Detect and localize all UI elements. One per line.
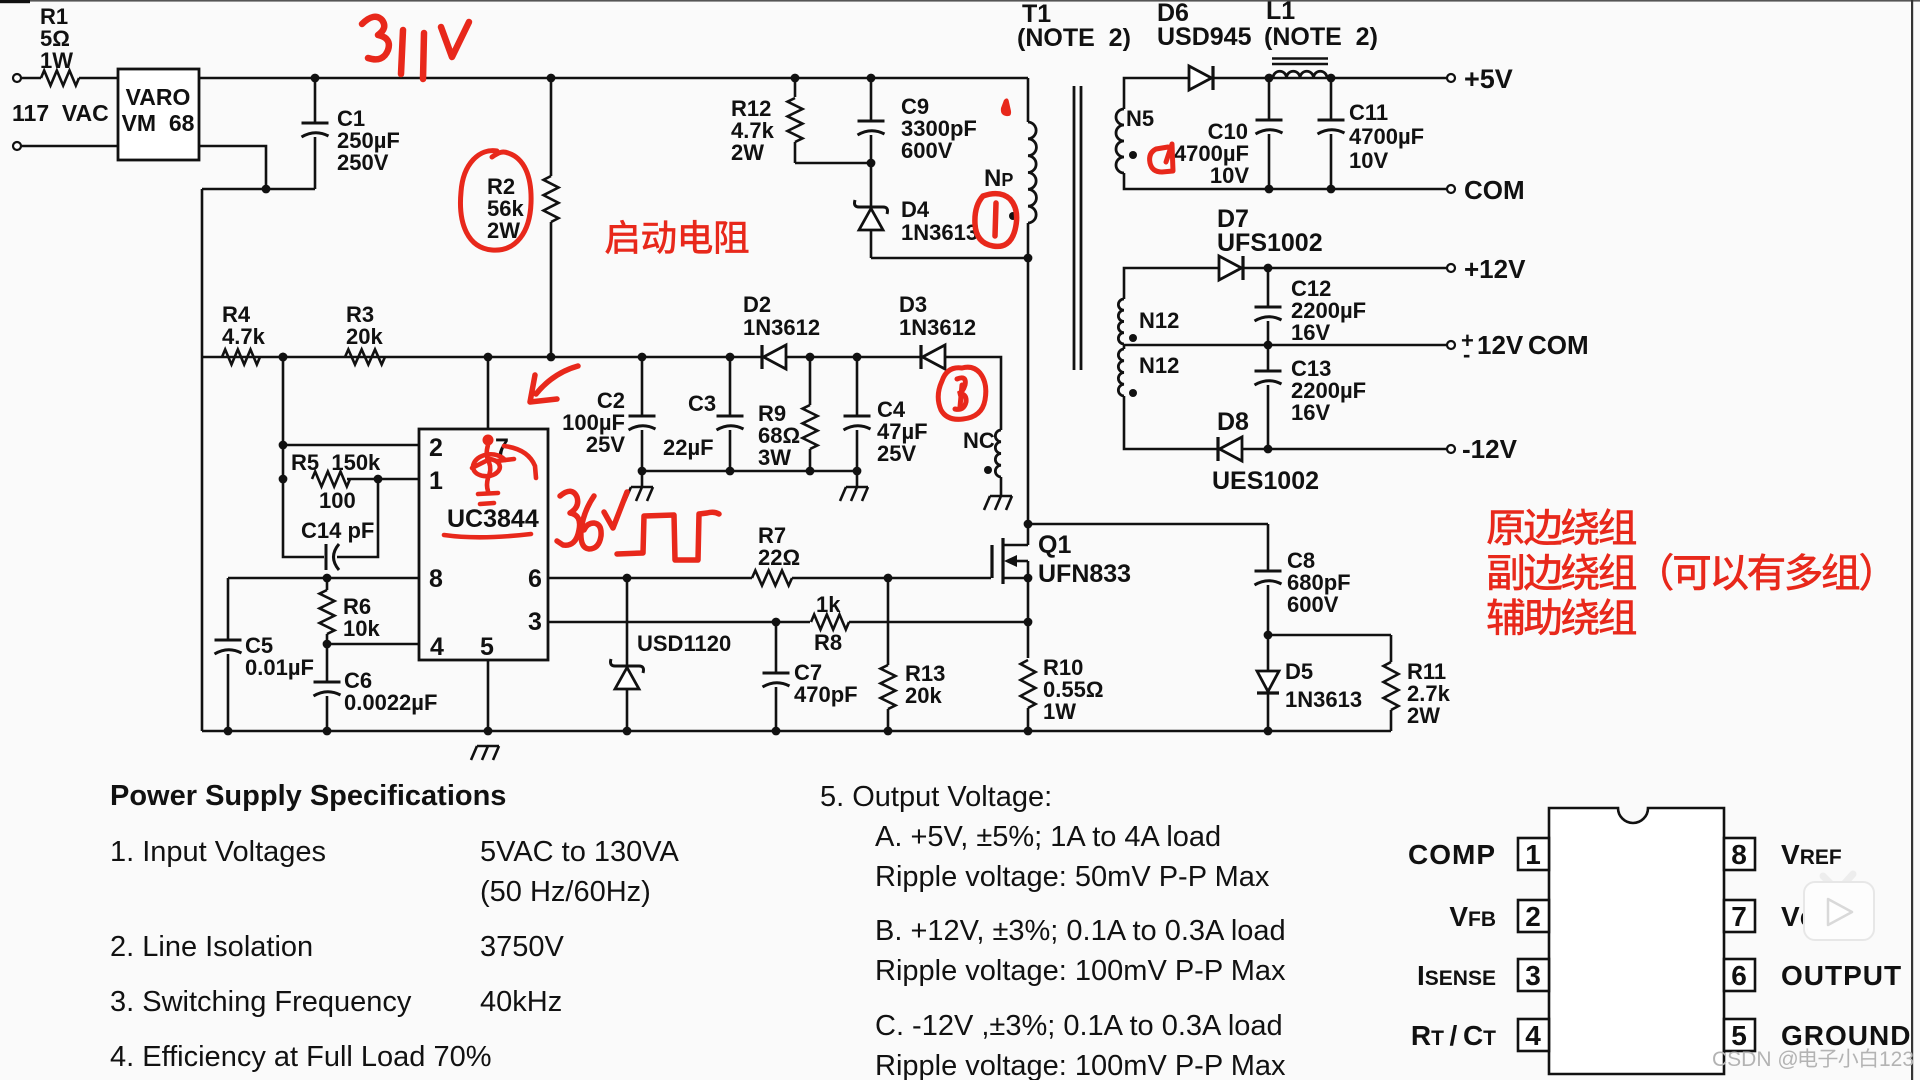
diode D6 USD945 bbox=[1189, 66, 1212, 90]
svg-text:1: 1 bbox=[429, 467, 443, 495]
wire NP to drain bbox=[1027, 223, 1030, 545]
resistor R9 bbox=[809, 357, 812, 405]
page right edge line bbox=[1911, 0, 1913, 1080]
capacitor C2 bbox=[641, 357, 644, 416]
node rail R12 bbox=[791, 74, 800, 83]
svg-text:3W: 3W bbox=[758, 445, 791, 470]
svg-text:N5: N5 bbox=[1126, 106, 1154, 131]
wire N5 top to D6 bbox=[1124, 78, 1189, 109]
wire N12a to D7 bbox=[1124, 268, 1219, 299]
pin 5 box bbox=[1724, 1019, 1755, 1051]
resistor R10 bbox=[1027, 622, 1030, 658]
red square wave annotation bbox=[617, 512, 719, 560]
svg-text:R8: R8 bbox=[814, 630, 842, 655]
red squiggle annotation at C10 bbox=[1150, 144, 1173, 172]
svg-text:UES1002: UES1002 bbox=[1212, 467, 1319, 495]
terminal +12V bbox=[1447, 264, 1455, 272]
wire pin8 row bbox=[228, 577, 419, 580]
svg-text:+5V: +5V bbox=[1464, 64, 1513, 94]
resistor R12 bbox=[794, 78, 797, 97]
svg-text:(50 Hz/60Hz): (50 Hz/60Hz) bbox=[480, 876, 651, 908]
wire aux ground row bbox=[642, 470, 857, 473]
svg-text:25V: 25V bbox=[586, 432, 625, 457]
svg-text:C11: C11 bbox=[1349, 100, 1388, 125]
svg-text:NC: NC bbox=[963, 428, 995, 453]
node R13 rail bbox=[884, 727, 893, 736]
svg-text:2W: 2W bbox=[487, 218, 520, 243]
op-amp U1 pinout DIP-8 body bbox=[1549, 808, 1724, 1074]
phase dot N5 bbox=[1129, 151, 1137, 159]
svg-text:GROUND: GROUND bbox=[1781, 1020, 1911, 1051]
phase dot NP bbox=[1009, 212, 1017, 220]
svg-text:D8: D8 bbox=[1217, 408, 1249, 436]
node C3 top bbox=[726, 353, 735, 362]
svg-text:4. Efficiency at Full Load 70%: 4. Efficiency at Full Load 70% bbox=[110, 1041, 492, 1073]
transformer T1 winding NC bbox=[995, 430, 1001, 477]
svg-text:C. -12V ,±3%; 0.1A to 0.3A loa: C. -12V ,±3%; 0.1A to 0.3A load bbox=[875, 1010, 1283, 1042]
resistor R8 1k bbox=[811, 615, 849, 630]
wire pin2 bbox=[283, 444, 419, 447]
svg-text:1N3612: 1N3612 bbox=[743, 315, 820, 340]
svg-text:R5 150k: R5 150k bbox=[291, 450, 381, 475]
wire pin6 row bbox=[548, 577, 752, 580]
node C10 bottom bbox=[1265, 185, 1274, 194]
svg-text:0.01µF: 0.01µF bbox=[245, 655, 314, 680]
node R13 top bbox=[884, 574, 893, 583]
svg-text:Ripple voltage: 100mV P-P Max: Ripple voltage: 100mV P-P Max bbox=[875, 1050, 1286, 1080]
wire pin7 stub bbox=[487, 357, 490, 429]
node C1 bottom bbox=[262, 185, 271, 194]
red text fubian raozu (secondary winding, can have multiple) bbox=[1488, 554, 1523, 590]
node rail C9 bbox=[867, 74, 876, 83]
svg-text:B. +12V, ±3%; 0.1A to 0.3A loa: B. +12V, ±3%; 0.1A to 0.3A load bbox=[875, 915, 1286, 947]
wire VCC row bbox=[202, 356, 762, 359]
diode D3 1N3612 bbox=[919, 345, 922, 369]
svg-text:123: 123 bbox=[1879, 1048, 1914, 1071]
svg-text:N12: N12 bbox=[1139, 308, 1179, 333]
ground aux left bbox=[641, 471, 644, 487]
capacitor C12 bbox=[1267, 268, 1270, 307]
transformer T1 primary winding NP bbox=[1028, 122, 1036, 223]
node C13 bottom bbox=[1264, 445, 1273, 454]
pin 3 box bbox=[1518, 959, 1549, 991]
resistor R7 bbox=[752, 571, 792, 586]
svg-text:5: 5 bbox=[480, 633, 494, 661]
svg-text:2W: 2W bbox=[1407, 703, 1440, 728]
svg-text:7: 7 bbox=[1731, 901, 1747, 932]
wire rail corner to NP bbox=[1027, 78, 1030, 122]
wire left vertical down bbox=[201, 189, 204, 731]
diode D7 UFS1002 bbox=[1219, 256, 1242, 280]
node C2 bottom bbox=[638, 467, 647, 476]
svg-text:UC3844: UC3844 bbox=[447, 505, 539, 533]
svg-text:40kHz: 40kHz bbox=[480, 986, 562, 1018]
ground pin5 bbox=[471, 746, 499, 760]
svg-text:3: 3 bbox=[528, 608, 542, 636]
red circled 1 annotation at NP bbox=[975, 194, 1017, 247]
node source bbox=[1024, 574, 1033, 583]
svg-text:Ripple voltage: 50mV P-P Max: Ripple voltage: 50mV P-P Max bbox=[875, 861, 1270, 893]
resistor R6 bbox=[326, 578, 329, 590]
L1 core lines bbox=[1272, 57, 1328, 59]
capacitor C11 bbox=[1330, 78, 1333, 120]
pin 7 box bbox=[1724, 900, 1755, 932]
node C8 D5 R11 bbox=[1264, 631, 1273, 640]
svg-text:22Ω: 22Ω bbox=[758, 545, 800, 570]
svg-text:4: 4 bbox=[430, 633, 444, 661]
node C10 top bbox=[1265, 74, 1274, 83]
terminal 12V COM bbox=[1447, 341, 1455, 349]
svg-text:600V: 600V bbox=[901, 138, 953, 163]
svg-text:C3: C3 bbox=[688, 391, 716, 416]
svg-text:5: 5 bbox=[1731, 1020, 1747, 1051]
terminal input bottom bbox=[13, 142, 21, 150]
svg-text:2W: 2W bbox=[731, 140, 764, 165]
wire R8 to source bbox=[849, 621, 1028, 624]
svg-text:470pF: 470pF bbox=[794, 682, 858, 707]
wire pin4 bbox=[327, 643, 419, 646]
svg-text:N12: N12 bbox=[1139, 353, 1179, 378]
node R5 left bbox=[279, 475, 288, 484]
node pin2 row bbox=[279, 441, 288, 450]
wire VARO to top rail bbox=[199, 77, 1028, 80]
wire D8 to -12V terminal bbox=[1242, 448, 1447, 451]
node C6 bottom rail bbox=[323, 727, 332, 736]
svg-text:6: 6 bbox=[1731, 960, 1747, 991]
svg-text:5. Output Voltage:: 5. Output Voltage: bbox=[820, 781, 1052, 813]
svg-text:20k: 20k bbox=[346, 324, 383, 349]
red underline UC3844 bbox=[444, 534, 531, 537]
node pin5 rail bbox=[484, 727, 493, 736]
wire bottom ground rail bbox=[202, 730, 1391, 733]
svg-text:8: 8 bbox=[1731, 839, 1747, 870]
transformer T1 secondary winding N12 lower bbox=[1118, 349, 1124, 396]
diode D5 1N3613 bbox=[1267, 635, 1270, 671]
svg-text:D2: D2 bbox=[743, 292, 771, 317]
diode D8 UES1002 bbox=[1216, 437, 1219, 461]
node C9 bottom D4 bbox=[867, 159, 876, 168]
svg-text:1W: 1W bbox=[40, 48, 73, 73]
svg-text:L1: L1 bbox=[1266, 0, 1295, 25]
svg-text:10V: 10V bbox=[1210, 163, 1249, 188]
red text 36V bbox=[557, 491, 627, 549]
resistor R13 bbox=[887, 578, 890, 665]
svg-text:16V: 16V bbox=[1291, 400, 1330, 425]
wire C14 loop bbox=[283, 479, 324, 557]
node USD1120 branch bbox=[623, 574, 632, 583]
red circled 3 annotation at NC bbox=[938, 367, 986, 419]
svg-text:UFN833: UFN833 bbox=[1038, 560, 1131, 588]
svg-text:600V: 600V bbox=[1287, 592, 1339, 617]
node drain C8 branch bbox=[1024, 520, 1033, 529]
svg-text:20k: 20k bbox=[905, 683, 942, 708]
resistor R3 bbox=[345, 350, 385, 365]
node C2 top bbox=[638, 353, 647, 362]
svg-text:1k: 1k bbox=[816, 592, 841, 617]
svg-text:22µF: 22µF bbox=[663, 435, 714, 460]
node R5 right / pin1 bbox=[374, 475, 383, 484]
pin 8 box bbox=[1724, 838, 1755, 870]
svg-text:VARO: VARO bbox=[126, 84, 191, 110]
wire VARO lower output bbox=[199, 146, 266, 189]
red text qidong dianzu (startup resistor) bbox=[605, 220, 637, 254]
svg-text:Power Supply Specifications: Power Supply Specifications bbox=[110, 780, 506, 812]
svg-text:NP: NP bbox=[984, 165, 1013, 192]
svg-text:(NOTE 2): (NOTE 2) bbox=[1264, 23, 1378, 51]
resistor R5 bbox=[312, 472, 350, 487]
node R2 bottom bbox=[547, 353, 556, 362]
node R6 top bbox=[323, 574, 332, 583]
wire COM row bbox=[1124, 173, 1447, 189]
svg-text:2: 2 bbox=[429, 434, 443, 462]
node USD1120 rail bbox=[623, 727, 632, 736]
wire input top bbox=[21, 77, 41, 80]
red scribble at pin7 (vcc diode/cap sketch) bbox=[472, 435, 536, 505]
wire pin1 bbox=[347, 478, 419, 481]
resistor R11 bbox=[1390, 635, 1393, 662]
wire vertical to pin2/R5 bbox=[282, 357, 285, 479]
wire pin5 stub bbox=[487, 660, 490, 731]
capacitor C5 bbox=[227, 578, 230, 640]
svg-text:-12V: -12V bbox=[1462, 434, 1518, 464]
svg-text:5VAC to 130VA: 5VAC to 130VA bbox=[480, 836, 679, 868]
pin 6 box bbox=[1724, 959, 1755, 991]
inductor L1 bbox=[1273, 71, 1327, 78]
svg-text:1W: 1W bbox=[1043, 699, 1076, 724]
svg-text:1N3612: 1N3612 bbox=[899, 315, 976, 340]
node R10 rail bbox=[1024, 727, 1033, 736]
svg-text:12V: 12V bbox=[1477, 330, 1524, 360]
red dot annotation bbox=[1001, 98, 1011, 116]
svg-text:3: 3 bbox=[1525, 960, 1541, 991]
svg-text:CSDN @: CSDN @ bbox=[1712, 1048, 1799, 1071]
svg-text:25V: 25V bbox=[877, 441, 916, 466]
capacitor C6 bbox=[326, 644, 329, 682]
terminal COM bbox=[1447, 185, 1455, 193]
svg-text:COMP: COMP bbox=[1408, 839, 1496, 870]
svg-text:C14 pF: C14 pF bbox=[301, 518, 374, 543]
svg-text:1: 1 bbox=[1525, 839, 1541, 870]
bridge rectifier VARO VM68 box bbox=[118, 69, 199, 160]
svg-text:0.0022µF: 0.0022µF bbox=[344, 690, 437, 715]
svg-text:-: - bbox=[1463, 342, 1470, 367]
svg-text:(NOTE 2): (NOTE 2) bbox=[1017, 24, 1131, 52]
node rail R2 bbox=[547, 74, 556, 83]
transformer T1 core bbox=[1073, 86, 1076, 370]
svg-text:1N3613: 1N3613 bbox=[1285, 687, 1362, 712]
svg-text:A. +5V, ±5%; 1A to 4A load: A. +5V, ±5%; 1A to 4A load bbox=[875, 821, 1221, 853]
capacitor C3 bbox=[729, 357, 732, 416]
svg-text:Ripple voltage: 100mV P-P Max: Ripple voltage: 100mV P-P Max bbox=[875, 955, 1286, 987]
svg-text:USD945: USD945 bbox=[1157, 23, 1252, 51]
terminal input top bbox=[13, 74, 21, 82]
svg-text:USD1120: USD1120 bbox=[637, 631, 731, 656]
svg-text:COM: COM bbox=[1528, 330, 1589, 360]
node pin7 branch bbox=[484, 353, 493, 362]
svg-text:10V: 10V bbox=[1349, 148, 1388, 173]
page top edge line bbox=[0, 0, 1920, 2]
diode D2 1N3612 bbox=[760, 345, 763, 369]
svg-text:16V: 16V bbox=[1291, 320, 1330, 345]
svg-text:OUTPUT: OUTPUT bbox=[1781, 960, 1902, 991]
diode D4 1N3613 bbox=[870, 163, 873, 207]
capacitor C7 bbox=[775, 622, 778, 673]
capacitor C10 bbox=[1268, 78, 1271, 120]
svg-text:VM 68: VM 68 bbox=[122, 110, 195, 136]
svg-text:3. Switching Frequency: 3. Switching Frequency bbox=[110, 986, 412, 1018]
pin 4 box bbox=[1518, 1019, 1549, 1051]
node 311V rail at C1 bbox=[311, 74, 320, 83]
svg-text:D4: D4 bbox=[901, 197, 930, 222]
capacitor C14 bbox=[325, 544, 328, 570]
red text yuanbian raozu (primary winding) bbox=[1487, 510, 1524, 545]
node D5 rail bbox=[1264, 727, 1273, 736]
op-amp U1 UC3844 box bbox=[419, 429, 548, 660]
svg-text:4: 4 bbox=[1525, 1020, 1541, 1051]
wire drain to C8 bbox=[1028, 523, 1268, 526]
capacitor C9 bbox=[870, 78, 873, 121]
node C3 bottom bbox=[726, 467, 735, 476]
wire D6 to +5V terminal bbox=[1213, 77, 1447, 80]
svg-text:250V: 250V bbox=[337, 150, 389, 175]
node C12 top bbox=[1264, 264, 1273, 273]
svg-text:1. Input Voltages: 1. Input Voltages bbox=[110, 836, 326, 868]
wire pin3 row bbox=[548, 621, 810, 624]
wire D3 to NC winding bbox=[945, 357, 1001, 430]
svg-text:10k: 10k bbox=[343, 616, 380, 641]
phase dot N12 lower bbox=[1129, 389, 1137, 397]
svg-text:3750V: 3750V bbox=[480, 931, 565, 963]
wire D2 to D3 bbox=[786, 356, 921, 359]
node C7 rail bbox=[772, 727, 781, 736]
svg-text:1N3613: 1N3613 bbox=[901, 220, 978, 245]
phase dot N12 upper bbox=[1129, 334, 1137, 342]
resistor R1 bbox=[41, 71, 79, 86]
wire center tap to 12V COM terminal bbox=[1123, 344, 1126, 349]
node R9 top bbox=[806, 353, 815, 362]
svg-text:6: 6 bbox=[528, 565, 542, 593]
ground NC bbox=[1000, 477, 1003, 496]
node pin4 R6 C6 bbox=[323, 640, 332, 649]
wire input bottom bbox=[21, 145, 118, 148]
node C4 top bbox=[853, 353, 862, 362]
svg-text:100: 100 bbox=[319, 488, 356, 513]
svg-text:8: 8 bbox=[429, 565, 443, 593]
node R8 source bbox=[1024, 618, 1033, 627]
wire R7 to gate bbox=[792, 577, 991, 580]
capacitor C4 bbox=[856, 357, 859, 416]
pin 1 box bbox=[1518, 838, 1549, 870]
resistor R4 bbox=[222, 350, 260, 365]
svg-text:COM: COM bbox=[1464, 175, 1525, 205]
node C11 bottom bbox=[1327, 185, 1336, 194]
wire R1 to VARO bbox=[79, 77, 118, 80]
node primary bottom bbox=[1024, 254, 1033, 263]
node C7 top bbox=[772, 618, 781, 627]
resistor R2 bbox=[550, 78, 553, 176]
node C4 bottom bbox=[853, 467, 862, 476]
node C12 C13 midpoint bbox=[1264, 341, 1273, 350]
svg-text:D5: D5 bbox=[1285, 659, 1313, 684]
node C5 bottom rail bbox=[224, 727, 233, 736]
transformer T1 secondary winding N12 upper bbox=[1118, 299, 1124, 344]
pin 2 box bbox=[1518, 900, 1549, 932]
wire C8 node to R11 bbox=[1268, 634, 1391, 637]
capacitor C13 bbox=[1267, 345, 1270, 371]
terminal +5V bbox=[1447, 74, 1455, 82]
transistor Q1 UFN833 mosfet bbox=[990, 545, 993, 578]
play button watermark bbox=[1804, 874, 1874, 940]
node R9 bottom bbox=[806, 467, 815, 476]
node VCC row x283 bbox=[279, 353, 288, 362]
svg-text:Q1: Q1 bbox=[1038, 531, 1071, 559]
wire D7 to +12V terminal bbox=[1243, 267, 1447, 270]
svg-text:D3: D3 bbox=[899, 292, 927, 317]
svg-text:+12V: +12V bbox=[1464, 254, 1526, 284]
red circle around R2 label bbox=[460, 151, 531, 251]
ground aux right bbox=[856, 471, 859, 487]
svg-text:2. Line Isolation: 2. Line Isolation bbox=[110, 931, 313, 963]
node C11 top bbox=[1327, 74, 1336, 83]
svg-text:117 VAC: 117 VAC bbox=[12, 100, 109, 126]
node R4-R3 bbox=[279, 353, 288, 362]
terminal -12V bbox=[1447, 445, 1455, 453]
svg-text:4700µF: 4700µF bbox=[1349, 124, 1424, 149]
wire C1 bottom to left vertical bbox=[202, 188, 315, 191]
svg-text:2: 2 bbox=[1525, 901, 1541, 932]
svg-text:UFS1002: UFS1002 bbox=[1217, 229, 1323, 257]
red arrow annotation bbox=[530, 366, 578, 402]
diode USD1120 schottky bbox=[626, 578, 629, 666]
capacitor C1 bbox=[314, 78, 317, 123]
red text fuzhu raozu (auxiliary winding) bbox=[1487, 598, 1524, 635]
wire N12b to D8 bbox=[1124, 396, 1218, 449]
transformer T1 secondary winding N5 bbox=[1116, 109, 1124, 173]
capacitor C8 bbox=[1267, 524, 1270, 571]
wire D4 to NP bottom bbox=[871, 257, 1028, 260]
svg-text:4.7k: 4.7k bbox=[222, 324, 266, 349]
red text 311V bbox=[362, 17, 469, 79]
phase dot NC bbox=[984, 466, 992, 474]
